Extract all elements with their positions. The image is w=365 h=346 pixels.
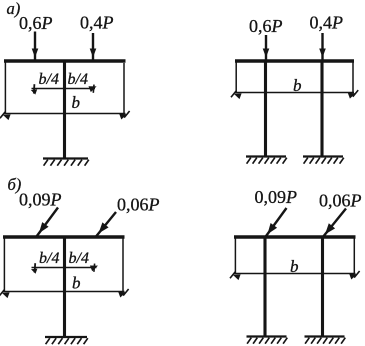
- beam (top right): [235, 59, 354, 62]
- load arrow 0,4P (top right): [319, 33, 326, 61]
- extension line left (top right): [235, 63, 237, 93]
- extension line left (bottom left): [3, 239, 5, 292]
- load arrow 0,6P (top right): [263, 35, 270, 61]
- svg-text:0,09P: 0,09P: [255, 187, 298, 207]
- svg-text:b/4: b/4: [69, 250, 89, 267]
- svg-text:b: b: [72, 274, 81, 293]
- left column (bottom right): [263, 239, 266, 337]
- beam (a): [4, 59, 126, 62]
- extension line left (bottom right): [234, 239, 236, 274]
- right column (top right): [320, 63, 323, 157]
- dimension line b (top right): [231, 90, 358, 99]
- right ground (top right): [303, 157, 344, 164]
- svg-text:b: b: [290, 257, 299, 276]
- column (bottom left): [63, 239, 66, 338]
- svg-text:b/4: b/4: [68, 71, 88, 88]
- left column (top right): [264, 63, 267, 157]
- inclined load arrow 0,06P (bottom right): [323, 209, 347, 238]
- extension line right (bottom right): [353, 239, 355, 274]
- load arrow 0,6P (a): [32, 32, 39, 62]
- svg-text:0,4P: 0,4P: [80, 13, 114, 33]
- svg-text:0,6P: 0,6P: [249, 16, 283, 36]
- left ground (bottom right): [247, 337, 288, 344]
- extension line right (top right): [352, 63, 354, 93]
- svg-text:0,06P: 0,06P: [319, 191, 362, 211]
- beam (bottom left): [3, 235, 125, 238]
- load arrow 0,4P (a): [90, 33, 97, 61]
- dimension line b (bottom left): [0, 289, 129, 298]
- right ground (bottom right): [305, 337, 346, 344]
- dimension line b (a): [0, 111, 130, 120]
- right column (bottom right): [321, 239, 324, 337]
- svg-text:0,6P: 0,6P: [19, 13, 53, 33]
- beam (bottom right): [234, 235, 356, 238]
- svg-text:0,06P: 0,06P: [117, 195, 160, 215]
- dimension line b/4 (bottom left): [31, 263, 98, 274]
- svg-text:b/4: b/4: [39, 250, 59, 267]
- extension line right (a): [123, 63, 125, 114]
- ground (bottom left): [45, 337, 88, 344]
- left ground (top right): [246, 157, 287, 164]
- dimension line b/4 (a): [31, 84, 97, 94]
- svg-text:0,4P: 0,4P: [310, 13, 344, 33]
- svg-text:0,09P: 0,09P: [19, 190, 62, 210]
- extension line right (bottom left): [122, 239, 124, 292]
- svg-text:b: b: [293, 76, 302, 95]
- extension line left (a): [4, 63, 6, 114]
- inclined load arrow 0,06P (bottom left): [96, 212, 116, 237]
- ground (a): [43, 159, 89, 166]
- svg-text:b: b: [72, 93, 81, 112]
- inclined load arrow 0,09P (bottom right): [265, 208, 287, 238]
- svg-text:b/4: b/4: [39, 71, 59, 88]
- inclined load arrow 0,09P (bottom left): [37, 208, 59, 237]
- dimension line b (bottom right): [230, 271, 360, 280]
- column (a): [63, 63, 66, 159]
